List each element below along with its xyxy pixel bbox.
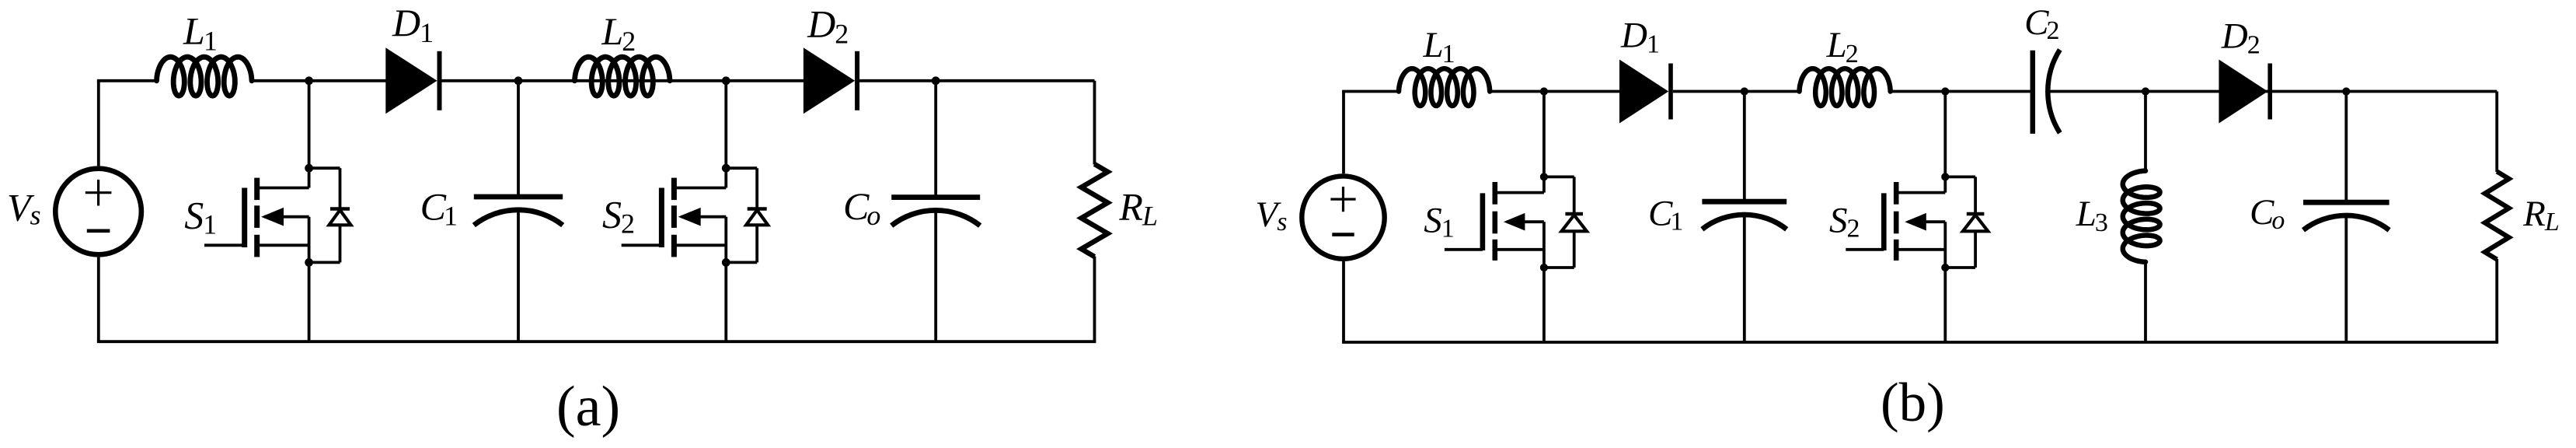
node drain junction of S2 (b)	[1941, 173, 1949, 180]
node C2-L3-D2 (b)	[2142, 87, 2149, 95]
capacitor Co (b)	[2303, 202, 2390, 230]
wire top rail Vs to L1 (b)	[1342, 90, 1400, 93]
node source junction of S2 (b)	[1941, 264, 1949, 271]
wire Co bottom (a)	[934, 211, 937, 342]
body diode of S2 (b)	[1945, 177, 1988, 268]
node D1-C1-L2 (b)	[1741, 87, 1748, 95]
voltage source Vs (a)	[55, 169, 141, 255]
wire C1 top (b)	[1743, 92, 1746, 202]
body diode of S1 (a)	[309, 168, 351, 262]
node L2-D2-S2 (a)	[722, 76, 730, 85]
wire L3 bottom (b)	[2144, 261, 2147, 343]
node drain junction of S2 (a)	[722, 164, 730, 173]
diode D1 (a)	[385, 47, 441, 114]
inductor L2 (a)	[575, 57, 671, 96]
wire Vs bottom lead (a)	[97, 257, 100, 342]
wire S1 drain (b)	[1542, 92, 1546, 177]
inductor L1 (b)	[1399, 68, 1490, 106]
transistor S1 (b)	[1445, 177, 1544, 268]
wire Co bottom (b)	[2344, 215, 2348, 342]
wire C2 to RL via L3 D2 Co (b)	[2048, 90, 2498, 93]
resistor RL (b)	[2485, 172, 2509, 260]
capacitor C2 (b)	[2033, 50, 2060, 134]
node D2-Co-RL (a)	[932, 76, 940, 85]
inductor L1 (a)	[157, 57, 253, 96]
node L1-D1-S1 (a)	[305, 76, 313, 85]
node drain junction of S1 (b)	[1540, 173, 1548, 180]
wire Co top (b)	[2344, 92, 2348, 203]
capacitor C1 (b)	[1702, 201, 1786, 229]
node source junction of S1 (b)	[1540, 264, 1548, 271]
wire S2 source (b)	[1943, 268, 1947, 342]
wire L1 to D1 (a)	[251, 79, 387, 82]
wire S1 source to ground rail (a)	[308, 262, 311, 341]
wire S2 source (a)	[724, 262, 727, 341]
node L1-D1-S1 (b)	[1540, 87, 1548, 95]
node D2-Co-RL (b)	[2342, 87, 2350, 95]
wire L3 top (b)	[2144, 92, 2147, 173]
wire D1 to L2 (b)	[1673, 90, 1800, 93]
voltage source Vs (b)	[1302, 176, 1384, 258]
wire RL bottom (a)	[1093, 257, 1096, 342]
svg-text:(b): (b)	[1881, 373, 1945, 433]
transistor S1 (a)	[204, 168, 309, 262]
resistor RL (a)	[1082, 164, 1108, 257]
wire C1 bottom (a)	[517, 210, 520, 341]
wire C1 bottom (b)	[1743, 215, 1746, 342]
wire L1 to D1 (b)	[1489, 90, 1620, 93]
wire RL top (a)	[1093, 81, 1096, 165]
wire S2 drain (b)	[1943, 92, 1947, 177]
inductor L3 (b)	[2123, 171, 2160, 262]
wire Vs top lead (a)	[97, 81, 100, 166]
transistor S2 (a)	[622, 168, 727, 262]
wire D1 to D2 via C1 L2 S2 (a)	[442, 79, 805, 82]
wire RL top (b)	[2495, 92, 2498, 173]
wire Vs bottom lead (b)	[1342, 261, 1345, 342]
capacitor C1 (a)	[474, 197, 563, 226]
wire Vs top lead (b)	[1342, 92, 1345, 174]
wire bottom rail (a)	[97, 340, 1096, 343]
wire RL bottom (b)	[2495, 259, 2498, 342]
body diode of S2 (a)	[726, 168, 768, 262]
inductor L2 (b)	[1800, 68, 1891, 106]
capacitor Co (a)	[891, 198, 980, 226]
wire S2 drain (a)	[724, 81, 727, 168]
diode D2 (b)	[2219, 60, 2272, 124]
wire Co top (a)	[934, 81, 937, 198]
node source junction of S2 (a)	[722, 258, 730, 267]
diode D2 (a)	[803, 47, 859, 114]
node source junction of S1 (a)	[305, 258, 313, 267]
svg-text:(a): (a)	[556, 375, 620, 439]
wire D2 to RL (a)	[859, 79, 1094, 82]
diode D1 (b)	[1619, 60, 1673, 124]
node L2-S2-C2 (b)	[1941, 87, 1949, 95]
node D1-C1-L2 (a)	[514, 76, 523, 85]
wire bottom rail (b)	[1342, 341, 2498, 344]
transistor S2 (b)	[1846, 177, 1945, 268]
wire S1 drain (a)	[308, 81, 311, 168]
body diode of S1 (b)	[1544, 177, 1587, 268]
wire C1 top (a)	[517, 81, 520, 197]
wire top rail Vs to L1 (a)	[97, 79, 158, 82]
node drain junction of S1 (a)	[305, 164, 313, 173]
wire L2 to C2 (b)	[1890, 90, 2030, 93]
wire S1 source (b)	[1542, 268, 1546, 342]
